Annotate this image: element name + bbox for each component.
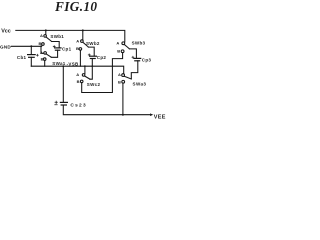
svg-text:GND: GND [0, 45, 11, 50]
svg-text:-VSB: -VSB [67, 61, 79, 66]
capacitor Cp2 [88, 54, 96, 59]
svg-text:SWa1: SWa1 [52, 61, 65, 66]
wire Cp1 bottom to SWa1 pivot [51, 50, 57, 57]
svg-text:Vcc: Vcc [1, 29, 11, 35]
wire SWb2 pivot to Cp2 [88, 47, 94, 56]
wire SWc2 A feed [84, 66, 86, 73]
svg-text:SWb2: SWb2 [86, 41, 100, 46]
svg-text:A: A [116, 41, 119, 46]
capacitor Cp1 [53, 46, 61, 51]
node GND end dot [40, 45, 42, 47]
node GND-Cb1 junction [30, 45, 32, 47]
svg-text:B: B [76, 46, 79, 51]
switch SWc2 [80, 74, 90, 83]
switch SWb1 [41, 35, 51, 47]
svg-text:A: A [40, 33, 43, 38]
capacitor Cs23 [55, 101, 68, 105]
svg-text:A: A [118, 72, 121, 77]
node Vcc junction col2 [82, 29, 84, 31]
svg-text:B: B [39, 41, 42, 46]
svg-text:SWb3: SWb3 [132, 41, 146, 46]
switch SWb3 [121, 42, 129, 53]
switch SWa3 [122, 74, 132, 84]
svg-text:B: B [118, 80, 121, 85]
wire SWc2 B link to SWb3 B [82, 53, 123, 93]
wire GND to SWa1 A [41, 46, 44, 53]
svg-text:B: B [117, 48, 120, 53]
wire SWb3 pivot to Cp3 [129, 49, 136, 58]
wire GND rail [11, 45, 41, 47]
svg-text:VEE: VEE [154, 114, 166, 120]
wire SWa1 B to VSB bus [44, 60, 46, 66]
VEE arrow [150, 113, 153, 116]
svg-text:SWa3: SWa3 [133, 82, 147, 87]
node rail junction [122, 114, 124, 116]
svg-text:SWc2: SWc2 [87, 82, 101, 87]
svg-text:Cp3: Cp3 [142, 57, 152, 62]
wire Cb1 bottom to bus [30, 57, 32, 66]
wire Cs23 top [62, 66, 64, 102]
svg-text:SWb1: SWb1 [50, 34, 64, 39]
svg-text:Cp2: Cp2 [97, 55, 107, 60]
wire VSB bus [31, 66, 123, 74]
capacitor Cp3 [132, 56, 141, 61]
svg-text:Cp1: Cp1 [62, 46, 72, 51]
node Vcc junction col1 [45, 29, 47, 31]
svg-text:B: B [77, 79, 80, 84]
svg-text:FIG.10: FIG.10 [54, 0, 97, 14]
wire SWb2 B to bus [79, 50, 81, 66]
switch SWa1 [43, 52, 51, 61]
node bus SWc2 feed [84, 65, 86, 67]
wire SWb1 feed [45, 30, 47, 34]
wire Cs23 bottom to VEE rail [63, 105, 151, 115]
wire SWb1 pivot to Cp1 [52, 42, 60, 48]
wire SWb2 feed [82, 30, 84, 39]
switch SWb2 [79, 40, 88, 50]
svg-text:A: A [40, 50, 43, 55]
wire Cp3 bottom to SWa3 pivot [131, 61, 138, 79]
wire Vcc rail [16, 30, 125, 42]
wire SWa3 B to VEE rail [122, 83, 124, 115]
node bus Cs23 junction [62, 65, 64, 67]
svg-text:Cs23: Cs23 [70, 102, 86, 108]
svg-text:A: A [76, 72, 79, 77]
capacitor Cb1 [28, 54, 39, 57]
svg-text:A: A [76, 38, 79, 43]
svg-text:B: B [41, 57, 44, 62]
wire Cb1 top [30, 46, 32, 54]
wire Cp2 bottom to SWc2 pivot [90, 59, 92, 80]
node Cp2 bus crossing [91, 65, 93, 67]
svg-text:Cb1: Cb1 [17, 55, 27, 60]
